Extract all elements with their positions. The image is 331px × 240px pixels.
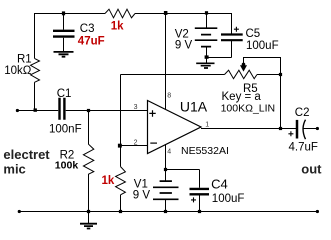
node V2 top bbox=[205, 11, 208, 14]
svg-text:4.7uF: 4.7uF bbox=[289, 142, 318, 154]
svg-text:3: 3 bbox=[134, 104, 138, 111]
wire C4 bottom stub bbox=[199, 196, 201, 212]
node 1k ground bbox=[119, 210, 122, 213]
wire ground stem bbox=[88, 212, 90, 224]
svg-text:9 V: 9 V bbox=[133, 189, 151, 201]
wire R1 bottom stub bbox=[34, 82, 36, 110]
wire C1 to op-amp input bbox=[66, 110, 148, 112]
ground (V2) bbox=[196, 63, 214, 68]
ground (main) bbox=[80, 224, 97, 229]
node V1 ground bbox=[164, 210, 167, 213]
wire C3 stubs bbox=[63, 14, 65, 52]
capacitor C4 bbox=[190, 189, 210, 194]
node R2 top bbox=[87, 109, 90, 112]
svg-text:4: 4 bbox=[167, 149, 171, 156]
wire R5 to right node bbox=[257, 74, 281, 76]
wire V2 ground stem bbox=[206, 58, 208, 63]
node V+ bbox=[164, 11, 168, 15]
wire inverting input bbox=[121, 145, 148, 147]
op-amp U1A bbox=[148, 101, 202, 154]
svg-text:100k: 100k bbox=[55, 159, 79, 171]
wire output bbox=[201, 128, 296, 130]
svg-text:C3: C3 bbox=[80, 23, 95, 35]
node V2 bottom bbox=[205, 55, 209, 58]
wire 1k bottom stub bbox=[120, 195, 122, 212]
terminal mic ground bbox=[18, 210, 21, 213]
resistor R2 bbox=[83, 111, 93, 212]
svg-text:C5: C5 bbox=[246, 28, 261, 40]
potentiometer R5 bbox=[225, 70, 258, 79]
svg-text:out: out bbox=[301, 161, 322, 176]
node inverting input bbox=[118, 144, 122, 148]
svg-text:R1: R1 bbox=[17, 53, 32, 65]
capacitor C2 plate bbox=[296, 120, 299, 139]
wire mic signal bbox=[17, 110, 58, 112]
wire pin4 rail to C4 bbox=[166, 170, 200, 188]
svg-text:C4: C4 bbox=[211, 176, 228, 191]
node R1 bottom bbox=[34, 108, 37, 111]
svg-text:Key = a: Key = a bbox=[222, 91, 262, 103]
svg-text:U1A: U1A bbox=[180, 99, 208, 115]
terminal out bbox=[316, 127, 319, 130]
plus sign C5 bbox=[234, 27, 239, 32]
resistor R1 bbox=[31, 58, 40, 82]
wire V1 stubs bbox=[165, 170, 167, 212]
terminal mic signal bbox=[16, 109, 19, 112]
capacitor C5 bbox=[221, 35, 243, 41]
svg-text:1k: 1k bbox=[102, 175, 115, 187]
svg-text:47uF: 47uF bbox=[78, 36, 105, 48]
svg-text:100KΩ_LIN: 100KΩ_LIN bbox=[221, 102, 276, 114]
wire top rail right segment bbox=[135, 14, 232, 35]
svg-text:1k: 1k bbox=[111, 21, 124, 33]
svg-text:C2: C2 bbox=[295, 107, 310, 119]
wire R5 wiper link bbox=[244, 58, 281, 129]
node R5 right bbox=[279, 73, 282, 76]
plus sign C2 bbox=[288, 131, 293, 136]
capacitor C3 bbox=[53, 31, 75, 37]
minus input symbol bbox=[150, 142, 157, 144]
resistor 1k (feedback bias) bbox=[105, 9, 135, 18]
battery V2 bbox=[195, 28, 218, 46]
wire pin2 node vertical bbox=[120, 75, 122, 167]
wire C2 out bbox=[303, 128, 317, 130]
wiper arrow R5 bbox=[240, 63, 247, 72]
svg-text:10kΩ: 10kΩ bbox=[4, 65, 32, 77]
svg-text:2: 2 bbox=[134, 139, 138, 146]
svg-text:mic: mic bbox=[3, 161, 25, 176]
wire top rail left segment bbox=[35, 14, 106, 59]
plus sign C4 bbox=[191, 197, 196, 202]
capacitor C1 bbox=[60, 98, 65, 120]
terminal ground right bbox=[316, 210, 319, 213]
svg-text:NE5532AI: NE5532AI bbox=[181, 145, 229, 157]
wire C5 bottom stub bbox=[231, 41, 233, 58]
svg-text:100nF: 100nF bbox=[49, 124, 82, 136]
svg-text:100uF: 100uF bbox=[212, 193, 245, 205]
node C3 top bbox=[62, 11, 65, 15]
resistor 1k (gain) bbox=[116, 167, 126, 195]
capacitor C2 curved plate bbox=[303, 120, 305, 140]
svg-text:C1: C1 bbox=[57, 88, 72, 100]
wire V2 to C5 bottom bbox=[207, 57, 232, 59]
svg-text:electret: electret bbox=[3, 147, 50, 162]
wire ground rail bottom bbox=[19, 211, 317, 213]
wire V2 stubs bbox=[206, 14, 208, 58]
svg-text:1: 1 bbox=[205, 122, 209, 129]
wire pin 4 supply bbox=[165, 144, 167, 169]
wire feedback horizontal bbox=[121, 74, 225, 76]
node output bbox=[279, 127, 282, 130]
plus input symbol bbox=[149, 110, 155, 117]
battery V1 bbox=[153, 181, 179, 199]
ground (C3) bbox=[54, 52, 74, 57]
node pin4 bbox=[164, 168, 167, 171]
svg-text:8: 8 bbox=[167, 92, 171, 99]
node R2 ground bbox=[87, 210, 90, 213]
svg-text:100uF: 100uF bbox=[246, 40, 279, 52]
node C4 ground bbox=[198, 210, 201, 213]
wire pin 8 supply bbox=[165, 14, 167, 110]
svg-text:9 V: 9 V bbox=[175, 40, 193, 52]
